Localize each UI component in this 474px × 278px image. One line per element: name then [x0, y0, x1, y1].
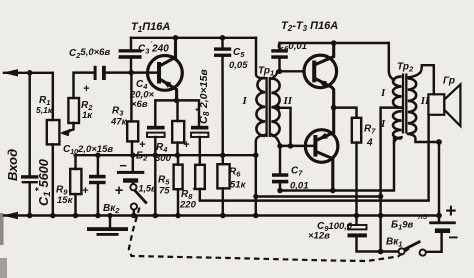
svg-text:+: + — [445, 201, 456, 222]
svg-text:75: 75 — [159, 186, 170, 197]
wire T2 collector — [316, 43, 334, 64]
svg-text:15к: 15к — [57, 195, 74, 206]
svg-text:−: − — [448, 228, 458, 247]
capacitor C5 — [214, 47, 231, 56]
wire C8 bottom to R8 — [199, 137, 201, 165]
wire R8 bottom to feedback rail — [200, 115, 429, 201]
svg-text:+: + — [183, 139, 190, 151]
svg-text:×6в: ×6в — [131, 99, 148, 110]
Tr1 winding II — [271, 78, 279, 136]
loudspeaker Gr — [428, 84, 460, 126]
svg-text:Вход: Вход — [5, 149, 20, 181]
battery B1 — [429, 221, 456, 233]
capacitor C7 — [272, 173, 288, 183]
wire R9 leads — [74, 155, 76, 169]
resistor R8 — [195, 165, 205, 189]
wire top rail T2 stage — [280, 42, 389, 44]
wire rail A collector T3 — [280, 139, 394, 191]
wire common emitter to R7 — [334, 108, 357, 118]
resistor R9 — [70, 169, 81, 194]
ground stem — [109, 216, 111, 228]
wire C10 leads — [97, 155, 99, 175]
resistor R6 — [217, 164, 229, 188]
svg-text:1к: 1к — [82, 110, 93, 121]
capacitor C6 — [271, 49, 288, 59]
svg-text:+: + — [115, 183, 124, 199]
switch Vk1 — [399, 241, 426, 256]
wire Tr2 primary bottom lead — [394, 137, 402, 142]
wire Vk2 to rail — [133, 210, 135, 216]
wire R3 bottom — [131, 141, 133, 155]
resistor R1 — [47, 120, 60, 144]
ground — [87, 227, 128, 236]
dashed mechanical link — [129, 208, 409, 262]
svg-text:С1*5600: С1*5600 — [34, 159, 53, 206]
wire T1 base line — [106, 71, 157, 73]
svg-text:−: − — [119, 158, 127, 173]
switch Vk2 — [130, 184, 147, 210]
svg-text:+: + — [82, 185, 89, 197]
svg-text:I: I — [380, 118, 386, 130]
wire Tr1 secondary bottom lead — [272, 135, 280, 146]
resistor R2 — [68, 98, 79, 123]
wire R4 column — [176, 100, 178, 121]
wire C9 top lead — [355, 216, 357, 225]
wire emitter line y100 — [155, 100, 199, 126]
svg-text:4: 4 — [366, 138, 373, 149]
svg-text:47к: 47к — [110, 117, 128, 128]
wire top rail T1 stage — [131, 37, 256, 39]
capacitor C4 — [147, 126, 165, 130]
svg-text:+: + — [83, 83, 90, 95]
capacitor C2 — [94, 66, 106, 80]
wire T2 emitter — [316, 79, 334, 108]
svg-text:II: II — [283, 95, 293, 107]
Tr1 core — [265, 77, 267, 137]
transistor T1 — [148, 56, 183, 91]
svg-text:0,05: 0,05 — [229, 60, 248, 71]
wire bottom common rail — [4, 214, 439, 216]
potentiometer wiper arrow R1 — [60, 129, 70, 137]
capacitor C10 — [89, 175, 106, 179]
Tr2 core — [402, 74, 404, 134]
transformer Tr2 — [393, 74, 416, 139]
svg-text:С3´240: С3´240 — [138, 41, 169, 56]
capacitor C6 leads — [278, 43, 280, 49]
wire C1 branch column — [28, 73, 30, 176]
input arrow top — [3, 69, 19, 76]
transistor T3 — [305, 130, 338, 163]
wire B2 lead — [132, 155, 134, 171]
wire base column to R3 — [130, 73, 132, 122]
wire C9 bottom to switch line — [357, 237, 399, 251]
wire T1 collector — [161, 38, 176, 66]
capacitor C1 — [21, 175, 38, 183]
resistor R3 — [127, 121, 138, 141]
capacitor C3 leads — [130, 38, 132, 50]
wire C5 R6 column — [221, 38, 223, 48]
svg-text:1,5в: 1,5в — [139, 184, 158, 194]
transistor T2 — [304, 55, 337, 88]
wire T1 emitter — [161, 80, 177, 101]
wire rail B Tr1 return — [256, 195, 381, 197]
svg-text:I: I — [242, 95, 248, 107]
svg-text:II: II — [420, 95, 430, 107]
Tr2 primary winding I upper — [393, 76, 402, 107]
wire Tr2 secondary top to speaker — [408, 65, 433, 94]
wire Tr2 primary top lead — [389, 43, 394, 80]
wire Tr1 primary top lead — [256, 38, 265, 79]
wire Tr1 secondary top to T2 base — [272, 71, 305, 78]
svg-text:Т1П16А: Т1П16А — [131, 21, 170, 34]
wire C2 left lead to R2 — [74, 73, 94, 98]
wire T3 base line — [280, 145, 313, 147]
Tr2 secondary winding II — [408, 78, 416, 133]
resistor R7 — [352, 118, 361, 143]
wire Vk1 to battery minus — [426, 233, 442, 251]
svg-text:С60,01: С60,01 — [277, 41, 307, 53]
wire battery plus column — [438, 142, 440, 221]
wire R1 column — [52, 73, 54, 120]
wire R2 bottom to wiper — [63, 123, 74, 133]
svg-text:300: 300 — [155, 153, 172, 164]
svg-text:лЗ: лЗ — [417, 212, 428, 221]
wire Tr2 secondary bottom jog — [408, 134, 439, 142]
capacitor C8 — [191, 126, 208, 130]
svg-text:Гр: Гр — [443, 76, 455, 87]
Tr2 primary winding I lower — [393, 111, 402, 138]
input arrow bottom — [3, 212, 19, 219]
wire bias line y155 — [75, 154, 256, 156]
wire R5 leads — [177, 155, 179, 164]
svg-text:220: 220 — [179, 200, 197, 211]
svg-text:5,1к: 5,1к — [36, 105, 53, 115]
capacitor C7 leads — [279, 146, 281, 173]
resistor R4 — [172, 121, 184, 143]
wire C4 bottom column — [154, 137, 156, 216]
wire Tr1 secondary tap — [278, 108, 291, 146]
svg-text:Б19в: Б19в — [391, 220, 414, 232]
capacitor C3 — [119, 49, 142, 59]
battery B2 — [117, 171, 144, 183]
svg-text:I: I — [380, 87, 386, 99]
wire input top line — [4, 72, 53, 74]
svg-text:×12в: ×12в — [308, 231, 330, 242]
transformer Tr1 — [256, 77, 279, 137]
svg-text:+: + — [139, 139, 146, 151]
wire Tr2 centre tap column — [381, 108, 402, 252]
wire R7 bottom column — [355, 143, 357, 216]
wire T3 emitter — [317, 108, 333, 140]
svg-text:51к: 51к — [230, 180, 247, 191]
scan smudge left edge — [0, 213, 4, 245]
wire Tr1 primary bottom column — [256, 135, 265, 216]
wire T3 collector — [317, 152, 332, 190]
svg-text:0,01: 0,01 — [290, 181, 309, 192]
Tr1 winding I — [256, 78, 265, 137]
resistor R5 — [174, 165, 183, 190]
capacitor C9 — [348, 225, 367, 229]
